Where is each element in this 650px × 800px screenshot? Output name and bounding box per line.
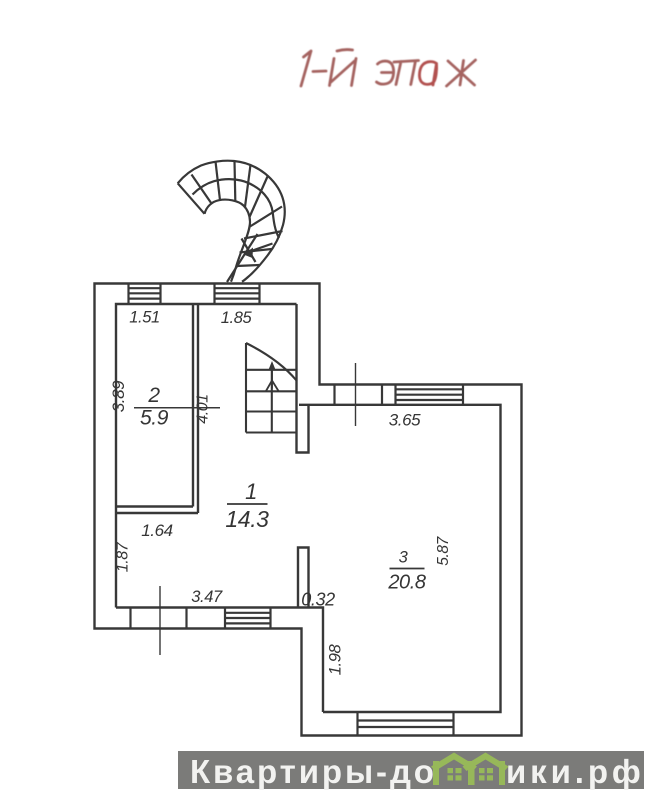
title "1-й этаж" hand drawn: [301, 50, 476, 86]
inner hook and tail: [205, 200, 251, 282]
inner wall bottom left block + room3 left inner: [116, 608, 323, 713]
svg-text:0.32: 0.32: [301, 590, 335, 610]
svg-text:3.89: 3.89: [109, 380, 128, 412]
spiral cut long diagonal: [227, 234, 258, 282]
dimension texts: [109, 309, 452, 676]
letter а (red): [419, 62, 436, 85]
window E bottom right wall: [358, 712, 454, 736]
svg-text:14.3: 14.3: [225, 506, 269, 532]
house 2: [499, 761, 505, 785]
radial step lines: [178, 183, 205, 214]
window A top wall: [129, 284, 161, 305]
svg-text:1.64: 1.64: [141, 521, 173, 540]
inner wall left block: [116, 304, 297, 608]
dimension tick bottom left: [159, 586, 161, 655]
room2 bottom wall: [116, 507, 198, 514]
straight staircase interior: [246, 343, 297, 433]
svg-text:1.98: 1.98: [327, 644, 345, 676]
svg-text:3: 3: [399, 549, 409, 567]
spiral arrow line: [247, 244, 273, 253]
spiral cut cross: [242, 239, 256, 263]
wall stub lower between room1 and room3: [298, 548, 309, 608]
window C right wing top wall: [396, 385, 464, 405]
svg-text:1: 1: [245, 479, 257, 504]
svg-text:Квартиры-до: Квартиры-до: [190, 753, 437, 790]
stair direction arrow: [266, 361, 279, 391]
letter т: [394, 61, 419, 85]
spiral arrow head: [244, 248, 254, 259]
svg-text:3.47: 3.47: [191, 588, 223, 606]
spiral staircase: [178, 161, 285, 282]
wall stub upper between room1 and room3: [297, 304, 309, 453]
leader line room2 label: [134, 407, 220, 409]
outer spiral: [178, 161, 285, 282]
wall divider right wing top: [335, 385, 383, 405]
svg-text:1.51: 1.51: [129, 309, 160, 327]
window B top wall: [215, 284, 260, 305]
dimension tick top right wing: [355, 363, 357, 426]
stair cut curve: [246, 343, 297, 381]
house 1: [433, 761, 439, 785]
letter э: [377, 61, 394, 84]
svg-text:1.87: 1.87: [115, 541, 132, 572]
watermark bar: [178, 751, 644, 789]
middle arc: [193, 179, 280, 238]
svg-text:20.8: 20.8: [387, 572, 426, 594]
svg-text:1.85: 1.85: [221, 309, 253, 327]
fraction bar room1 label: [227, 503, 268, 505]
svg-text:ики.рф: ики.рф: [506, 753, 645, 790]
watermark house icons: [431, 753, 509, 786]
svg-text:5.87: 5.87: [435, 535, 452, 565]
svg-text:5.9: 5.9: [140, 407, 169, 430]
svg-text:3.65: 3.65: [389, 411, 421, 430]
hyphen: [313, 70, 326, 73]
inner wall right wing: [299, 405, 501, 712]
partition wall room2 right: [193, 304, 198, 513]
window D bottom left wall: [225, 608, 271, 629]
letter ж: [447, 60, 476, 86]
letter 1: [301, 51, 311, 86]
outer wall outline: [95, 284, 522, 736]
svg-text:4.01: 4.01: [195, 394, 212, 424]
svg-text:2: 2: [147, 384, 160, 407]
fraction bar room3 label: [390, 568, 425, 570]
letter й: [330, 59, 357, 86]
wall divider bottom left: [131, 608, 187, 629]
